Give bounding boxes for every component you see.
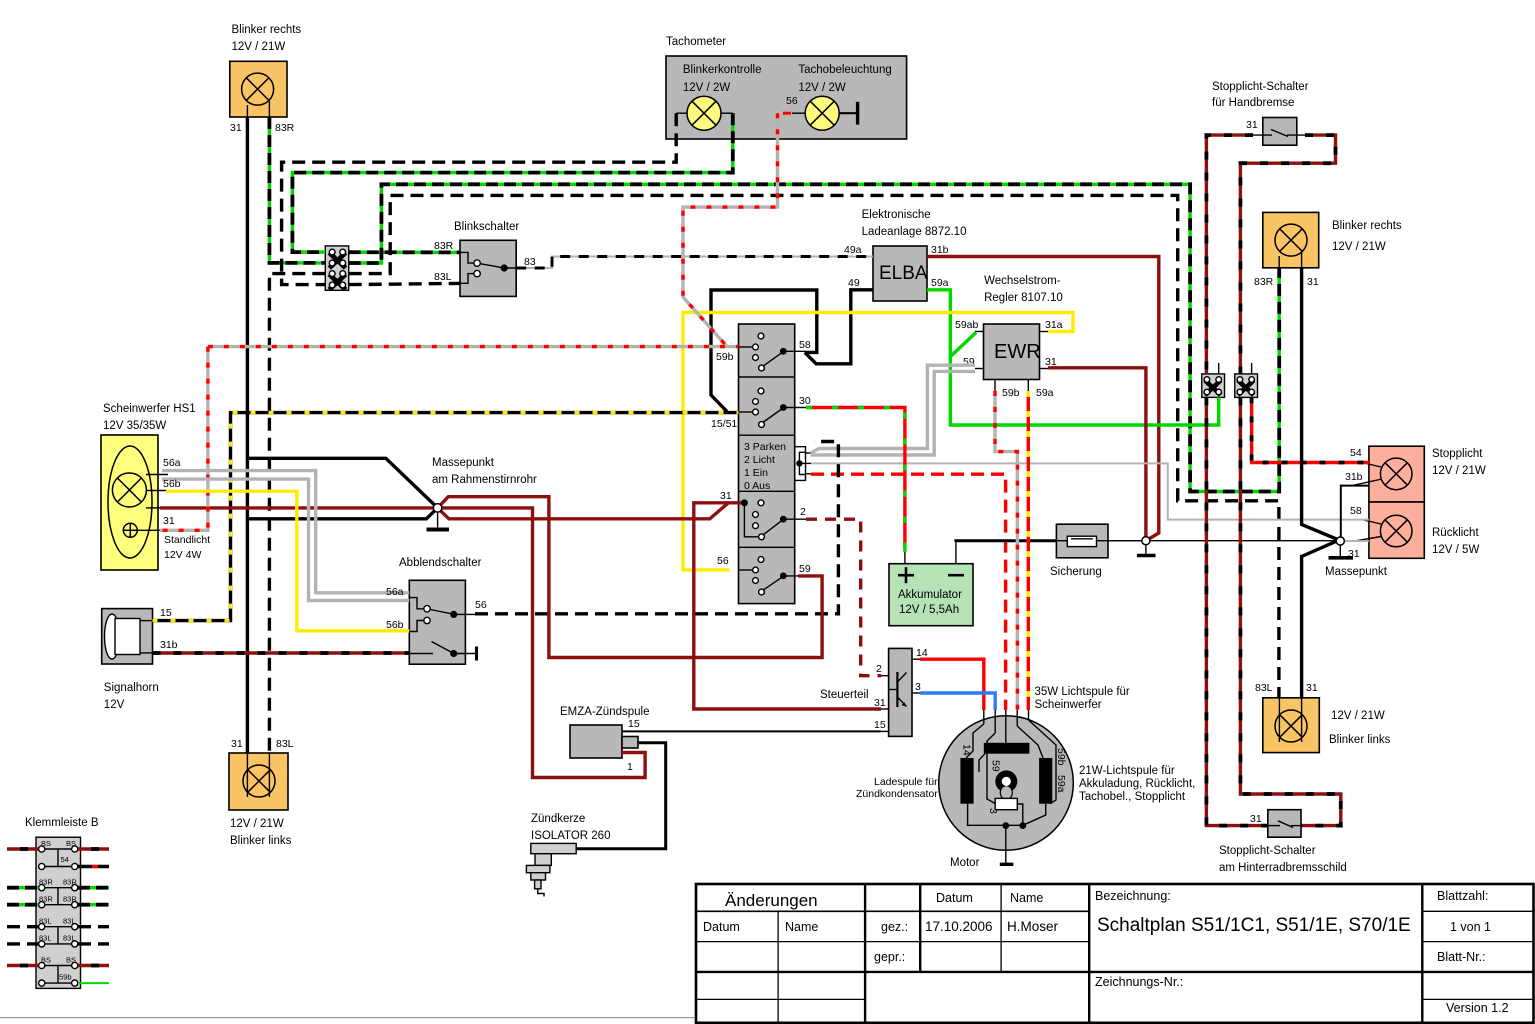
- svg-text:ELBA: ELBA: [879, 263, 928, 284]
- connector block B (brake light wire): [1235, 363, 1258, 397]
- EMZA ignition coil: [560, 706, 649, 773]
- svg-text:59: 59: [799, 563, 811, 575]
- wire connector row1 to Blinkschalter 83R (green/black): [349, 250, 460, 254]
- svg-text:15: 15: [874, 719, 886, 731]
- svg-text:Stopplicht: Stopplicht: [1432, 448, 1483, 460]
- svg-text:3: 3: [987, 808, 999, 814]
- svg-text:56: 56: [717, 555, 729, 567]
- wire 15/51 + Signalhorn 15 (black/yellow): [153, 413, 739, 621]
- svg-text:Sicherung: Sicherung: [1050, 566, 1102, 578]
- ground node N1 (fuse side): [1137, 537, 1156, 556]
- svg-text:Tachobel., Stopplicht: Tachobel., Stopplicht: [1079, 791, 1186, 803]
- wire EWR 31a to switch 56 (yellow): [683, 313, 1073, 570]
- svg-text:gepr.:: gepr.:: [874, 950, 905, 964]
- svg-text:59a: 59a: [931, 277, 949, 289]
- lamp Blinker links rear (bottom right): [1255, 682, 1391, 753]
- switch section 2 contacts (30/15-51): [739, 388, 807, 427]
- svg-text:Name: Name: [1010, 891, 1043, 905]
- svg-text:ISOLATOR 260: ISOLATOR 260: [531, 830, 610, 842]
- svg-text:56: 56: [475, 599, 487, 611]
- svg-text:Abblendschalter: Abblendschalter: [399, 557, 482, 569]
- wire Steuerteil 14 to motor (red): [920, 659, 984, 710]
- svg-text:31: 31: [1307, 276, 1319, 288]
- svg-text:59b: 59b: [716, 351, 734, 363]
- Akkumulator battery: [889, 542, 973, 626]
- svg-text:EMZA-Zündspule: EMZA-Zündspule: [560, 706, 649, 718]
- svg-text:gez.:: gez.:: [881, 920, 908, 934]
- Klemmleiste B stub wires: [7, 849, 109, 983]
- wire Steuerteil 3 to motor (blue): [920, 693, 995, 710]
- wire EWR 59a to motor (red/yellow): [1027, 391, 1030, 710]
- wire Blinkerkontrolle left to connector row4 (black dashed): [282, 113, 677, 284]
- wire Signalhorn 31b to Abblendschalter (dark red/black): [153, 651, 410, 654]
- svg-text:1 Ein: 1 Ein: [744, 467, 768, 479]
- svg-text:14: 14: [961, 744, 973, 756]
- wire EMZA high tension lead to spark plug (black): [576, 743, 666, 849]
- wire Blinkschalter 83 to ELBA 49a (gray with black dashes): [516, 257, 873, 269]
- wire headlight 56a to Abblendschalter (gray pair): [162, 471, 409, 601]
- svg-text:Elektronische: Elektronische: [862, 209, 931, 221]
- svg-text:Blinker links: Blinker links: [230, 835, 292, 847]
- svg-text:Zündkondensator: Zündkondensator: [856, 788, 938, 800]
- wire rear blinkers 31 to rear ground (black): [1302, 268, 1339, 698]
- svg-text:12V 4W: 12V 4W: [164, 549, 201, 561]
- svg-text:EWR: EWR: [994, 341, 1041, 363]
- ELBA electronic flasher/charger: [844, 209, 966, 301]
- wire bracket to Ruecklicht 58 (gray thin): [811, 463, 1369, 519]
- wire EMZA 15 to Steuerteil 15 (black): [622, 730, 881, 732]
- title block: [696, 884, 1534, 1023]
- svg-text:1 von 1: 1 von 1: [1450, 920, 1491, 934]
- switch section 5 contacts (56/59): [739, 557, 801, 595]
- svg-text:12V 35/35W: 12V 35/35W: [103, 420, 166, 432]
- Steuerteil control unit: [820, 647, 928, 736]
- page bottom edge line: [0, 1017, 1535, 1019]
- wire ELBA 31b to ground N1 (dark red): [927, 257, 1159, 541]
- svg-text:31: 31: [1246, 119, 1258, 131]
- wire brake switch loop left (dark red/black BS): [1206, 135, 1267, 826]
- svg-text:12V / 2W: 12V / 2W: [683, 82, 730, 94]
- svg-text:12V / 21W: 12V / 21W: [230, 818, 284, 830]
- Ruecklicht lamp unit: [1348, 502, 1479, 560]
- svg-text:15/51: 15/51: [711, 418, 737, 430]
- lamp Blinker links front (bottom-left): [229, 738, 294, 847]
- svg-text:am Rahmenstirnrohr: am Rahmenstirnrohr: [432, 474, 537, 486]
- svg-text:14: 14: [916, 647, 928, 659]
- svg-text:31: 31: [231, 738, 243, 750]
- wire EWR 59b to motor (gray/red): [995, 391, 1017, 710]
- wire switch 30 to battery plus (red/green): [806, 408, 905, 553]
- lamp Tachobeleuchtung: [783, 96, 858, 130]
- svg-text:3: 3: [915, 681, 921, 693]
- svg-text:Ladespule für: Ladespule für: [874, 776, 938, 788]
- Blinkschalter box: [434, 221, 536, 296]
- svg-text:Blinker links: Blinker links: [1329, 734, 1391, 746]
- svg-text:59a: 59a: [1036, 387, 1054, 399]
- svg-text:49a: 49a: [844, 244, 862, 256]
- svg-text:12V: 12V: [104, 699, 125, 711]
- Abblendschalter dimmer switch: [386, 557, 487, 664]
- svg-text:Akkuladung, Rücklicht,: Akkuladung, Rücklicht,: [1079, 778, 1195, 790]
- svg-text:Ladeanlage 8872.10: Ladeanlage 8872.10: [862, 226, 967, 238]
- svg-text:Regler 8107.10: Regler 8107.10: [984, 292, 1063, 304]
- wire ELBA 59a to connector A via green: [927, 290, 1219, 425]
- svg-text:2: 2: [800, 506, 806, 518]
- wire battery minus through fuse to ground (black): [956, 541, 1369, 542]
- svg-text:58: 58: [1350, 505, 1362, 517]
- svg-text:Scheinwerfer: Scheinwerfer: [1035, 699, 1102, 711]
- svg-text:83R: 83R: [434, 240, 454, 252]
- thin pins Blinker rechts front: [247, 101, 269, 117]
- svg-text:56: 56: [786, 95, 798, 107]
- svg-text:31: 31: [1306, 682, 1318, 694]
- svg-text:2: 2: [876, 663, 882, 675]
- switch section 1 contacts (58/59b): [739, 333, 806, 371]
- svg-text:Blinkschalter: Blinkschalter: [454, 221, 519, 233]
- svg-text:31b: 31b: [1345, 471, 1363, 483]
- switch position bracket (3/2/1/0): [795, 447, 812, 481]
- wire 83L front blinker to connector row3 (black dashed): [269, 274, 325, 753]
- connector block 4-pole (left, turn signal wires): [325, 246, 348, 292]
- svg-text:Name: Name: [785, 920, 818, 934]
- svg-text:0 Aus: 0 Aus: [744, 480, 770, 492]
- wire Blinkerkontrolle right to connector row1 (green/black): [292, 113, 732, 252]
- Signalhorn: [102, 607, 178, 711]
- svg-text:59ab: 59ab: [955, 319, 979, 331]
- svg-text:31a: 31a: [1045, 319, 1063, 331]
- Klemmleiste B terminal strip: [25, 817, 99, 988]
- ground Massepunkt rear: [1325, 537, 1388, 578]
- connector block A (brake light wire): [1202, 363, 1225, 397]
- wire Stopplicht 31b to rear ground (black): [1341, 486, 1369, 537]
- overlay labels over wires: [163, 478, 404, 598]
- svg-text:Rücklicht: Rücklicht: [1432, 527, 1479, 539]
- Zuendkerze spark plug: [526, 813, 610, 897]
- svg-text:Bezeichnung:: Bezeichnung:: [1095, 889, 1171, 903]
- svg-text:3 Parken: 3 Parken: [744, 441, 786, 453]
- wire ELBA 49 to switch 58 (black): [805, 290, 873, 364]
- wire brake switch loop right (dark red/black BS): [1240, 135, 1340, 826]
- svg-text:Scheinwerfer HS1: Scheinwerfer HS1: [103, 403, 196, 415]
- svg-text:Massepunkt: Massepunkt: [1325, 566, 1388, 578]
- Stopplicht-Schalter fuer Handbremse: [1212, 81, 1309, 145]
- svg-text:Stopplicht-Schalter: Stopplicht-Schalter: [1219, 845, 1316, 857]
- svg-text:Zündkerze: Zündkerze: [531, 813, 585, 825]
- svg-text:21W-Lichtspule für: 21W-Lichtspule für: [1079, 765, 1175, 777]
- wire EWR 31 to ground N1 (dark red): [1048, 368, 1146, 541]
- switch section 4 contacts (31/2): [741, 499, 806, 539]
- svg-text:Blinker rechts: Blinker rechts: [1332, 220, 1402, 232]
- svg-text:83L: 83L: [1255, 682, 1273, 694]
- svg-text:54: 54: [1350, 447, 1362, 459]
- svg-text:Klemmleiste B: Klemmleiste B: [25, 817, 99, 829]
- svg-text:Massepunkt: Massepunkt: [432, 457, 495, 469]
- svg-text:Blinker rechts: Blinker rechts: [232, 24, 302, 36]
- svg-text:1: 1: [627, 761, 633, 773]
- svg-text:56a: 56a: [163, 457, 181, 469]
- wire 83R front blinker to connector (green/black): [269, 117, 325, 263]
- Tachometer unit: [666, 36, 907, 139]
- svg-text:59b: 59b: [59, 973, 72, 982]
- svg-text:12V / 21W: 12V / 21W: [1432, 465, 1486, 477]
- svg-text:für Handbremse: für Handbremse: [1212, 97, 1294, 109]
- svg-text:Stopplicht-Schalter: Stopplicht-Schalter: [1212, 81, 1309, 93]
- wire connector row2 to rear Blinker rechts 83R (green/black): [349, 184, 1279, 491]
- wire switch 58 to 15/51 junction (black): [711, 290, 817, 412]
- ignition light switch block: [711, 324, 811, 604]
- wire switch 59 to ground node (dark red): [438, 497, 822, 658]
- svg-text:15: 15: [628, 718, 640, 730]
- svg-text:Steuerteil: Steuerteil: [820, 689, 869, 701]
- svg-text:H.Moser: H.Moser: [1007, 919, 1059, 934]
- svg-text:Standlicht: Standlicht: [164, 534, 210, 546]
- svg-text:31b: 31b: [160, 639, 178, 651]
- svg-text:31: 31: [1250, 813, 1262, 825]
- Stopplicht-Schalter am Hinterradbremsschild: [1219, 810, 1347, 874]
- wire 31 front blinkers to ground (black): [247, 117, 437, 753]
- wire connector row3 to rear Blinker links 83L (black dashed): [349, 195, 1279, 697]
- svg-text:Zeichnungs-Nr.:: Zeichnungs-Nr.:: [1095, 975, 1183, 989]
- Stopplicht lamp unit: [1345, 446, 1486, 502]
- svg-text:54: 54: [61, 855, 69, 864]
- wire Abblendschalter 56 to headlight node (black dashed): [475, 442, 838, 614]
- svg-text:31: 31: [874, 697, 886, 709]
- lamp Blinker rechts front (top-left): [230, 24, 302, 134]
- svg-text:12V / 21W: 12V / 21W: [1332, 241, 1386, 253]
- svg-text:am Hinterradbremsschild: am Hinterradbremsschild: [1219, 862, 1347, 874]
- svg-text:Datum: Datum: [703, 920, 740, 934]
- wire bracket to motor 35W coil (red dashed): [811, 474, 1006, 710]
- svg-text:58: 58: [799, 339, 811, 351]
- ground Massepunkt am Rahmenstirnrohr: [427, 457, 537, 530]
- svg-text:83L: 83L: [434, 271, 452, 283]
- wire block B to Stopplicht 54 (red/black): [1252, 397, 1369, 462]
- svg-text:Version 1.2: Version 1.2: [1446, 1001, 1509, 1015]
- svg-text:35W Lichtspule für: 35W Lichtspule für: [1035, 686, 1130, 698]
- wire connector row4 to Blinkschalter 83L (black dashed): [349, 283, 460, 284]
- wire 59b net: Tacho 56 to switch 59b and Standlicht (gray/red): [160, 113, 778, 530]
- EWR voltage regulator: [955, 275, 1063, 399]
- Motor generator unit: [856, 686, 1195, 869]
- svg-text:Änderungen: Änderungen: [725, 891, 818, 910]
- wire switch 2 to Steuerteil 2 (dark red dashed): [806, 519, 881, 676]
- Sicherung fuse: [1050, 524, 1146, 578]
- node overlays: [433, 499, 1344, 545]
- svg-text:Blattzahl:: Blattzahl:: [1437, 889, 1488, 903]
- svg-text:56a: 56a: [386, 586, 404, 598]
- svg-text:Tachometer: Tachometer: [666, 36, 726, 48]
- svg-text:12V / 5W: 12V / 5W: [1432, 544, 1479, 556]
- svg-text:Blatt-Nr.:: Blatt-Nr.:: [1437, 950, 1486, 964]
- svg-text:Akkumulator: Akkumulator: [898, 589, 962, 601]
- svg-text:59: 59: [990, 760, 1002, 772]
- svg-text:49: 49: [848, 277, 860, 289]
- svg-text:30: 30: [799, 395, 811, 407]
- svg-text:12V / 2W: 12V / 2W: [798, 82, 845, 94]
- svg-text:Signalhorn: Signalhorn: [104, 682, 159, 694]
- svg-text:Blinkerkontrolle: Blinkerkontrolle: [683, 64, 762, 76]
- svg-text:31: 31: [230, 122, 242, 134]
- svg-text:83R: 83R: [275, 122, 295, 134]
- svg-text:Tachobeleuchtung: Tachobeleuchtung: [798, 64, 891, 76]
- svg-text:56b: 56b: [163, 478, 181, 490]
- svg-text:12V / 21W: 12V / 21W: [1331, 710, 1385, 722]
- wire headlight 56b to Abblendschalter 56b (yellow): [166, 491, 409, 631]
- svg-text:83R: 83R: [1254, 276, 1274, 288]
- svg-text:17.10.2006: 17.10.2006: [925, 919, 993, 934]
- Scheinwerfer HS1 headlamp: [101, 403, 196, 570]
- wire EWR 59 to switch bracket (gray pair): [811, 365, 976, 455]
- svg-text:15: 15: [160, 607, 172, 619]
- svg-text:31: 31: [163, 515, 175, 527]
- lamp Blinker rechts rear (right): [1254, 212, 1402, 288]
- svg-text:12V / 5,5Ah: 12V / 5,5Ah: [899, 604, 959, 616]
- svg-text:83: 83: [524, 256, 536, 268]
- svg-text:31: 31: [720, 490, 732, 502]
- svg-text:Wechselstrom-: Wechselstrom-: [984, 275, 1061, 287]
- lamp Blinkerkontrolle: [676, 96, 733, 130]
- svg-text:Motor: Motor: [950, 857, 980, 869]
- svg-text:12V / 21W: 12V / 21W: [232, 41, 286, 53]
- svg-text:31b: 31b: [931, 244, 949, 256]
- svg-text:59b: 59b: [1002, 387, 1020, 399]
- svg-text:83L: 83L: [276, 738, 294, 750]
- svg-text:59b: 59b: [1055, 748, 1067, 766]
- wire switch 31 to ground and Steuerteil 31 (dark red): [438, 503, 881, 709]
- svg-text:2 Licht: 2 Licht: [744, 454, 775, 466]
- wire headlight 31 / EMZA 1 to ground node (dark red): [160, 508, 645, 778]
- svg-text:Schaltplan S51/1C1, S51/1E, S7: Schaltplan S51/1C1, S51/1E, S70/1E: [1097, 915, 1411, 936]
- svg-text:Datum: Datum: [936, 891, 973, 905]
- svg-text:59a: 59a: [1055, 775, 1067, 793]
